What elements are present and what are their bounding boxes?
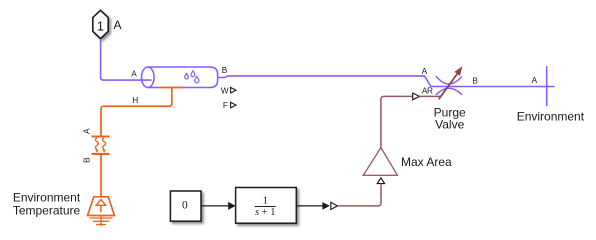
gain block Max Area triangle: [363, 148, 397, 176]
AR input hollow triangle: [413, 93, 420, 100]
environment block: [546, 66, 548, 106]
purge valve upper arc: [436, 76, 462, 84]
droplet 3: [195, 77, 199, 83]
PS wire gain to valve AR: [381, 96, 413, 147]
pipe port H orange segment: [159, 87, 184, 89]
PS converter hollow triangle: [331, 202, 338, 209]
unconnected port W triangle: [231, 87, 236, 93]
ground stub: [100, 216, 102, 227]
pipe block (moist air pipe cylinder): [142, 67, 218, 88]
PS wire AR triangle to valve arrow: [420, 95, 442, 97]
svg-text:B: B: [472, 76, 478, 86]
temperature source block: [88, 197, 115, 226]
svg-text:Max Area: Max Area: [401, 155, 452, 169]
svg-text:B: B: [82, 157, 92, 163]
svg-text:F: F: [223, 100, 228, 110]
spring left: [95, 138, 98, 149]
purge valve lower arc: [436, 88, 462, 95]
droplet 2: [191, 71, 195, 77]
svg-text:AR: AR: [422, 86, 433, 96]
ground line 3: [96, 224, 106, 226]
ground line 1: [90, 217, 113, 219]
svg-text:A: A: [422, 66, 428, 76]
svg-text:A: A: [131, 68, 137, 78]
arrowhead at PS converter: [322, 202, 329, 210]
svg-text:Valve: Valve: [435, 117, 464, 131]
svg-text:H: H: [132, 95, 138, 105]
ground line 2: [93, 220, 109, 222]
up arrow open head: [96, 200, 106, 206]
svg-text:Temperature: Temperature: [13, 203, 81, 217]
arrowhead at transfer fcn input: [228, 202, 235, 210]
up arrow stem: [100, 205, 102, 212]
transfer fcn block: [236, 188, 297, 224]
svg-text:A: A: [82, 128, 92, 134]
wire purple pipe B to valve to environment: [218, 76, 555, 87]
wire purple hexagon to pipe port A: [101, 39, 152, 80]
gain input hollow triangle: [377, 178, 384, 184]
svg-text:Environment: Environment: [517, 109, 585, 123]
spring right: [103, 138, 106, 149]
droplet 1: [185, 73, 189, 79]
svg-text:1: 1: [262, 194, 268, 206]
pipe left ellipse cap: [142, 67, 155, 88]
orange wire thermal block to temperature source: [100, 155, 102, 196]
svg-text:1: 1: [97, 19, 104, 34]
svg-text:0: 0: [182, 200, 188, 212]
svg-text:A: A: [114, 18, 122, 32]
svg-text:B: B: [222, 65, 228, 75]
purge valve arrow: [439, 73, 458, 99]
constant block 0: [170, 191, 201, 221]
signal wire transfer fcn output: [297, 205, 324, 207]
svg-text:s + 1: s + 1: [255, 207, 276, 218]
svg-text:A: A: [532, 75, 538, 85]
PS wire converter to gain: [338, 184, 381, 206]
unconnected port F triangle: [231, 102, 236, 108]
port block P1 hexagon: [93, 10, 108, 38]
bottom bar: [92, 153, 110, 155]
trapezoid: [88, 197, 115, 216]
orange wire pipe H to thermal block: [101, 88, 172, 136]
svg-text:W: W: [221, 85, 229, 95]
signal wire constant to transfer fcn: [201, 205, 229, 207]
top bar: [92, 135, 110, 137]
thermal conduction block: [92, 137, 110, 154]
